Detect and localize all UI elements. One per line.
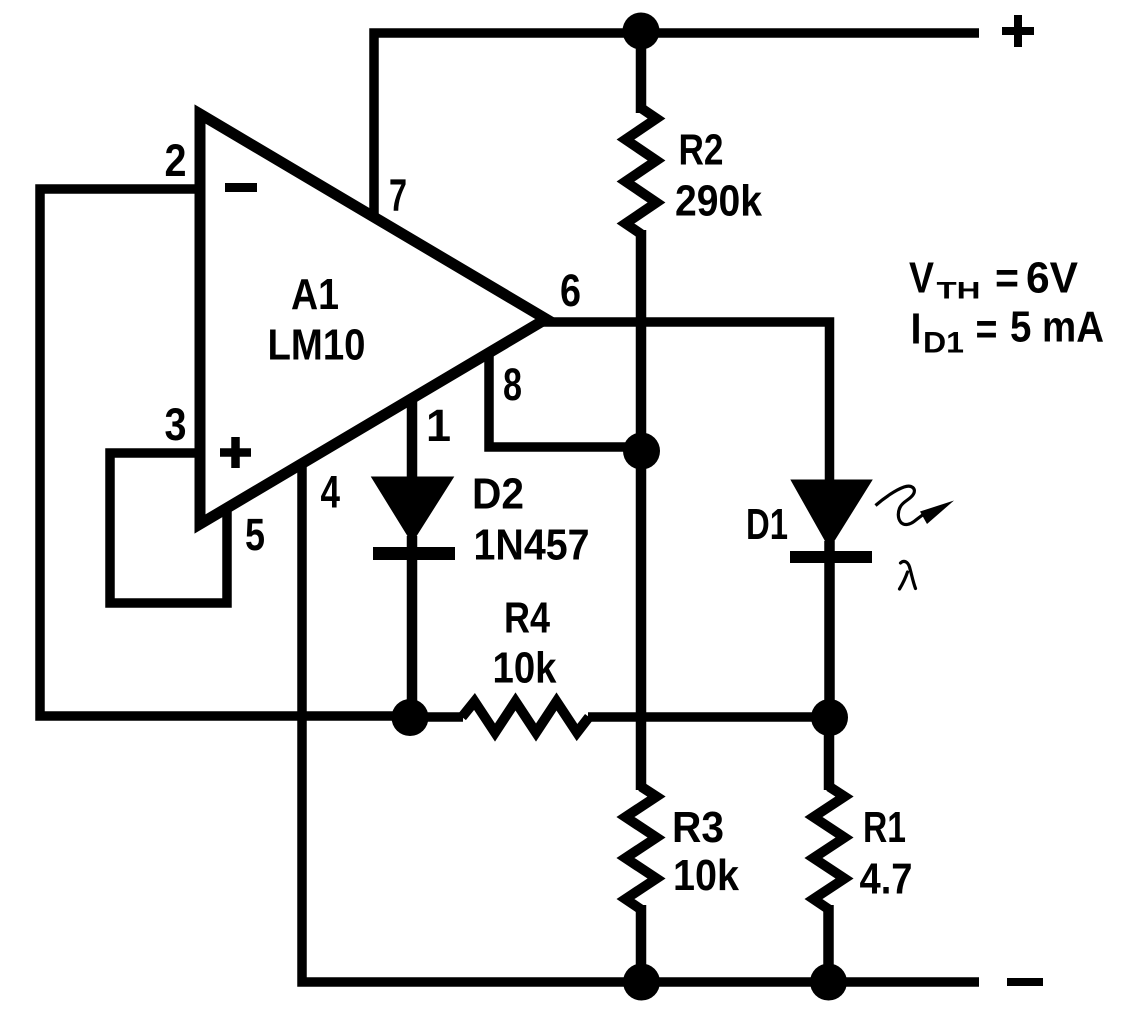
svg-text:D1: D1 (746, 500, 788, 549)
wire: R3 bottom to negative rail (636, 905, 647, 982)
resistor R2 (626, 108, 657, 234)
wire: D1 cathode down to node (824, 541, 835, 718)
wire: R4 right lead to D1/R1 node (588, 712, 830, 722)
resistor R3 (626, 787, 657, 910)
LED D1 light emission arrowhead (920, 501, 954, 525)
plus terminal (1002, 15, 1034, 47)
resistor R4 (462, 702, 589, 733)
minus terminal (1007, 978, 1043, 986)
svg-text:LM10: LM10 (268, 321, 366, 370)
LED D1 lambda symbol (900, 561, 916, 589)
junction dot: R1 / negative rail (810, 964, 847, 1001)
wire: R1 bottom to negative rail (823, 905, 834, 982)
junction dot: top rail / R2 (623, 13, 660, 50)
junction dot: pin 8 node (623, 433, 660, 470)
svg-text:V: V (909, 254, 935, 303)
op-amp plus input symbol (220, 437, 251, 468)
svg-text:4.7: 4.7 (860, 855, 913, 904)
op-amp A1 triangle (200, 114, 546, 524)
resistor R1 (814, 787, 845, 910)
svg-text:5 mA: 5 mA (1010, 303, 1104, 352)
svg-text:I: I (911, 305, 922, 354)
svg-text:5: 5 (245, 509, 265, 560)
svg-text:4: 4 (321, 467, 341, 518)
wire: positive supply rail with pin7 drop (374, 33, 979, 218)
wire: pin 2 feedback loop (left) (40, 189, 410, 716)
wire: main vertical node line (R2 top stub) (636, 28, 647, 113)
wire: R4 left lead (410, 712, 463, 722)
svg-text:TH: TH (937, 278, 981, 305)
wire: pin 4 down and negative rail (302, 464, 979, 982)
svg-text:3: 3 (165, 399, 187, 450)
svg-text:A1: A1 (291, 270, 339, 319)
svg-text:D2: D2 (472, 470, 524, 519)
svg-text:R4: R4 (504, 594, 550, 643)
svg-text:1N457: 1N457 (474, 521, 590, 570)
op-amp minus input symbol (225, 183, 257, 192)
svg-text:D1: D1 (923, 327, 964, 360)
svg-text:7: 7 (389, 170, 407, 221)
svg-text:10k: 10k (493, 643, 557, 692)
wire: pin 6 output to D1 top (543, 322, 830, 481)
svg-text:6: 6 (560, 265, 581, 316)
annotation ID1 = 5 mA (911, 303, 1105, 360)
svg-text:R3: R3 (672, 803, 724, 852)
LED D1 light emission arrow (876, 486, 927, 524)
svg-text:10k: 10k (673, 851, 739, 900)
svg-text:R2: R2 (679, 125, 724, 174)
svg-text:=: = (976, 305, 998, 354)
svg-text:2: 2 (165, 135, 187, 186)
svg-text:1: 1 (426, 400, 451, 451)
wire: R1 top lead (824, 717, 835, 790)
wire: pin 8 stub to node (489, 353, 641, 447)
svg-text:290k: 290k (675, 177, 762, 226)
wire: pin 1 stub to D2 (407, 398, 418, 480)
wire: main vertical node line (R2 bottom to R3 top) (636, 230, 647, 790)
annotation VTH = 6V (909, 254, 1079, 305)
wire: D2 cathode down to node (407, 536, 418, 717)
junction dot: D1 cathode / R4 / R1 (811, 699, 848, 736)
svg-text:6V: 6V (1026, 254, 1079, 303)
LED D1 cathode bar (790, 551, 872, 563)
junction dot: R3 / negative rail (623, 964, 660, 1001)
LED D1 body (792, 481, 871, 548)
junction dot: D2 cathode / R4 / feedback (392, 699, 429, 736)
svg-text:R1: R1 (863, 803, 906, 852)
diode D2 body (373, 478, 453, 542)
diode D2 cathode bar (373, 547, 455, 560)
wire: pin 3 / pin 5 balance square (110, 453, 227, 603)
svg-text:8: 8 (503, 359, 522, 410)
svg-text:=: = (995, 254, 1019, 303)
